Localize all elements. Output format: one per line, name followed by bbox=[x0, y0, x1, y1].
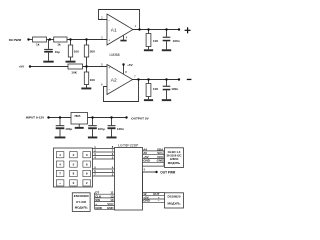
OLED table labels bbox=[143, 147, 164, 162]
wire INPUT to 7805 bbox=[49, 117, 72, 119]
ground under C1 bbox=[43, 61, 53, 63]
svg-text:1k: 1k bbox=[57, 42, 61, 46]
svg-text:6: 6 bbox=[86, 162, 88, 166]
svg-text:9: 9 bbox=[144, 168, 146, 172]
7805 ground stub bbox=[78, 124, 80, 127]
resistor R2 1k bbox=[54, 37, 67, 42]
svg-text:5: 5 bbox=[101, 62, 103, 66]
svg-text:A1: A1 bbox=[111, 27, 117, 33]
wire R1 to R2 bbox=[47, 39, 54, 41]
capacitor C2 100n plates bbox=[163, 37, 171, 42]
svg-text:8: 8 bbox=[125, 70, 127, 74]
svg-text:GND: GND bbox=[143, 159, 151, 163]
OLED module box bbox=[165, 148, 184, 168]
capacitor C5 100u plates bbox=[88, 125, 97, 129]
resistor R3 100 bbox=[68, 45, 72, 57]
ground under 7805 bbox=[75, 127, 84, 129]
ground under C5 bbox=[88, 137, 97, 139]
resistor R8 leads bbox=[148, 80, 150, 84]
svg-text:−: − bbox=[158, 199, 160, 203]
svg-text:МОДУЛЬ: МОДУЛЬ bbox=[168, 161, 181, 165]
ground under R3 bbox=[66, 61, 76, 63]
svg-text:9: 9 bbox=[86, 172, 88, 176]
capacitor C3 100n plates bbox=[163, 86, 171, 91]
svg-text:1k: 1k bbox=[36, 42, 40, 46]
svg-text:100: 100 bbox=[153, 87, 158, 91]
svg-text:6: 6 bbox=[101, 82, 103, 86]
encoder connection table wires bbox=[95, 193, 115, 210]
capacitor C2 leads bbox=[166, 30, 168, 37]
resistor R3 leads bbox=[70, 40, 72, 46]
resistor R8 100 bbox=[146, 84, 151, 97]
svg-text:ENCODER: ENCODER bbox=[74, 194, 90, 198]
capacitor C1 10u plates bbox=[44, 49, 53, 53]
resistor R7 100 bbox=[146, 34, 151, 47]
ground under C2 bbox=[162, 49, 171, 51]
svg-text:100µ: 100µ bbox=[98, 127, 105, 131]
ground under R7 bbox=[144, 49, 153, 51]
svg-text:2: 2 bbox=[101, 15, 103, 19]
DS18B20 table labels bbox=[143, 192, 160, 203]
svg-text:D9 PWM: D9 PWM bbox=[9, 38, 22, 42]
wire keypad pin3 to D6 bbox=[93, 155, 115, 157]
svg-text:OUTPUT 5V: OUTPUT 5V bbox=[131, 116, 149, 120]
encoder module box bbox=[72, 193, 90, 212]
terminal minus output bbox=[187, 79, 192, 80]
svg-text:100n: 100n bbox=[173, 39, 180, 43]
DS18B20 module box bbox=[165, 193, 184, 208]
DS18B20 connection table wires bbox=[143, 172, 165, 202]
capacitor C4 100u plates bbox=[56, 125, 65, 129]
wire D9 PWM to R1 bbox=[29, 39, 33, 41]
svg-text:7: 7 bbox=[59, 172, 61, 176]
svg-text:*: * bbox=[60, 182, 62, 186]
ground under C3 bbox=[162, 99, 171, 101]
svg-text:100µ: 100µ bbox=[65, 127, 72, 131]
svg-text:200: 200 bbox=[90, 49, 95, 53]
svg-text:GND: GND bbox=[95, 206, 103, 210]
op-amp A2 bbox=[107, 65, 133, 95]
op-amp A1 feedback wire bbox=[99, 10, 140, 30]
svg-text:LM358: LM358 bbox=[110, 53, 120, 57]
svg-text:DS18B20: DS18B20 bbox=[167, 195, 180, 199]
encoder table labels bbox=[95, 191, 114, 210]
svg-text:8: 8 bbox=[73, 172, 75, 176]
svg-text:GND: GND bbox=[107, 206, 115, 210]
wire keypad pin5 to D4 bbox=[93, 168, 115, 170]
svg-text:7: 7 bbox=[134, 74, 136, 78]
resistor R6 100 bbox=[84, 72, 88, 85]
op-amp A2 output wire bbox=[133, 79, 179, 81]
svg-text:KY-040: KY-040 bbox=[76, 200, 86, 204]
ground under C6 bbox=[107, 137, 117, 139]
wire keypad pin1 to D8 bbox=[93, 148, 115, 150]
keypad keys bbox=[56, 152, 90, 186]
wire keypad pin2 to D7 bbox=[93, 151, 115, 153]
ground under R8 bbox=[144, 99, 153, 101]
voltage regulator U2 7805 bbox=[71, 113, 88, 125]
capacitor C6 100n plates bbox=[108, 125, 116, 129]
capacitor C3 leads bbox=[166, 80, 168, 86]
svg-text:4: 4 bbox=[126, 36, 128, 40]
svg-text:100n: 100n bbox=[171, 87, 178, 91]
keypad wire pin numbers bbox=[94, 145, 114, 177]
ground under R6 bbox=[81, 88, 91, 90]
resistor R6 leads bbox=[86, 67, 88, 73]
svg-text:1: 1 bbox=[135, 24, 137, 28]
svg-text:100: 100 bbox=[74, 49, 79, 53]
svg-text:−: − bbox=[108, 88, 110, 92]
op-amp pin numbers bbox=[101, 15, 137, 86]
svg-text:100: 100 bbox=[153, 39, 158, 43]
wire D9 pin9 to OUT PWR bbox=[143, 171, 157, 173]
svg-text:+5V: +5V bbox=[19, 65, 26, 69]
svg-text:100n: 100n bbox=[117, 127, 124, 131]
wire keypad pin7 to D2 bbox=[93, 175, 115, 177]
wire keypad pin4 to D5 bbox=[93, 158, 115, 160]
wire +5V to R5 bbox=[30, 66, 69, 68]
op-amp A2 feedback wire bbox=[104, 80, 139, 102]
op-amp A1 bbox=[107, 14, 133, 45]
svg-text:GND: GND bbox=[143, 199, 151, 203]
svg-text:INPUT 9-12V: INPUT 9-12V bbox=[26, 116, 45, 120]
MCU U1 LGT8F328P bbox=[115, 148, 143, 211]
keypad SW1 outer box bbox=[54, 148, 93, 187]
svg-text:4: 4 bbox=[59, 162, 61, 166]
svg-text:МОДУЛЬ: МОДУЛЬ bbox=[75, 206, 89, 210]
wire R5 to A2 pin5 bbox=[83, 66, 108, 68]
OLED connection table wires bbox=[143, 151, 165, 166]
svg-text:OUT PWR: OUT PWR bbox=[160, 170, 176, 174]
op-amp A1 output wire bbox=[133, 29, 179, 31]
svg-text:+5V: +5V bbox=[127, 63, 134, 67]
svg-text:МОДУЛЬ: МОДУЛЬ bbox=[168, 202, 182, 206]
resistor R4 leads bbox=[86, 40, 88, 46]
svg-text:#: # bbox=[86, 181, 88, 185]
svg-text:3: 3 bbox=[101, 36, 103, 40]
power section labels bbox=[26, 114, 150, 131]
capacitor C6 leads bbox=[111, 118, 113, 126]
resistor R4 200 bbox=[84, 45, 88, 57]
svg-text:10µ: 10µ bbox=[55, 50, 60, 54]
capacitor C4 leads bbox=[59, 118, 61, 126]
keypad wires to MCU bbox=[93, 149, 115, 177]
svg-text:LGT8F328P: LGT8F328P bbox=[118, 144, 139, 148]
capacitor C1 leads bbox=[48, 40, 50, 49]
svg-text:−: − bbox=[108, 19, 110, 23]
svg-text:+: + bbox=[108, 38, 110, 42]
wire keypad pin6 to D3 bbox=[93, 172, 115, 174]
resistor R5 10K bbox=[68, 64, 83, 69]
svg-text:7805: 7805 bbox=[74, 114, 81, 118]
ground under C4 bbox=[55, 137, 66, 139]
svg-text:100: 100 bbox=[90, 78, 95, 82]
svg-text:1: 1 bbox=[59, 153, 61, 157]
svg-text:A2: A2 bbox=[111, 77, 117, 83]
ground A1 pin4 bbox=[120, 40, 126, 42]
svg-text:0: 0 bbox=[73, 181, 75, 185]
svg-text:GND: GND bbox=[157, 159, 165, 163]
svg-text:10K: 10K bbox=[71, 70, 77, 74]
capacitor C5 leads bbox=[92, 118, 94, 126]
wire 7805 to OUTPUT 5V bbox=[88, 117, 127, 119]
wire R2 to A1 pin3 bbox=[67, 39, 107, 41]
op-amp A1 pin4 stub bbox=[123, 36, 125, 40]
terminal plus output bbox=[185, 27, 191, 33]
text labels top bbox=[9, 38, 180, 91]
resistor R7 leads bbox=[148, 30, 150, 34]
op-amp A2 pin8 stub bbox=[123, 65, 125, 75]
svg-text:+: + bbox=[108, 66, 110, 70]
resistor R1 1k bbox=[33, 37, 47, 42]
svg-text:2: 2 bbox=[73, 153, 75, 157]
svg-text:3: 3 bbox=[86, 153, 88, 157]
svg-text:5: 5 bbox=[73, 162, 75, 166]
